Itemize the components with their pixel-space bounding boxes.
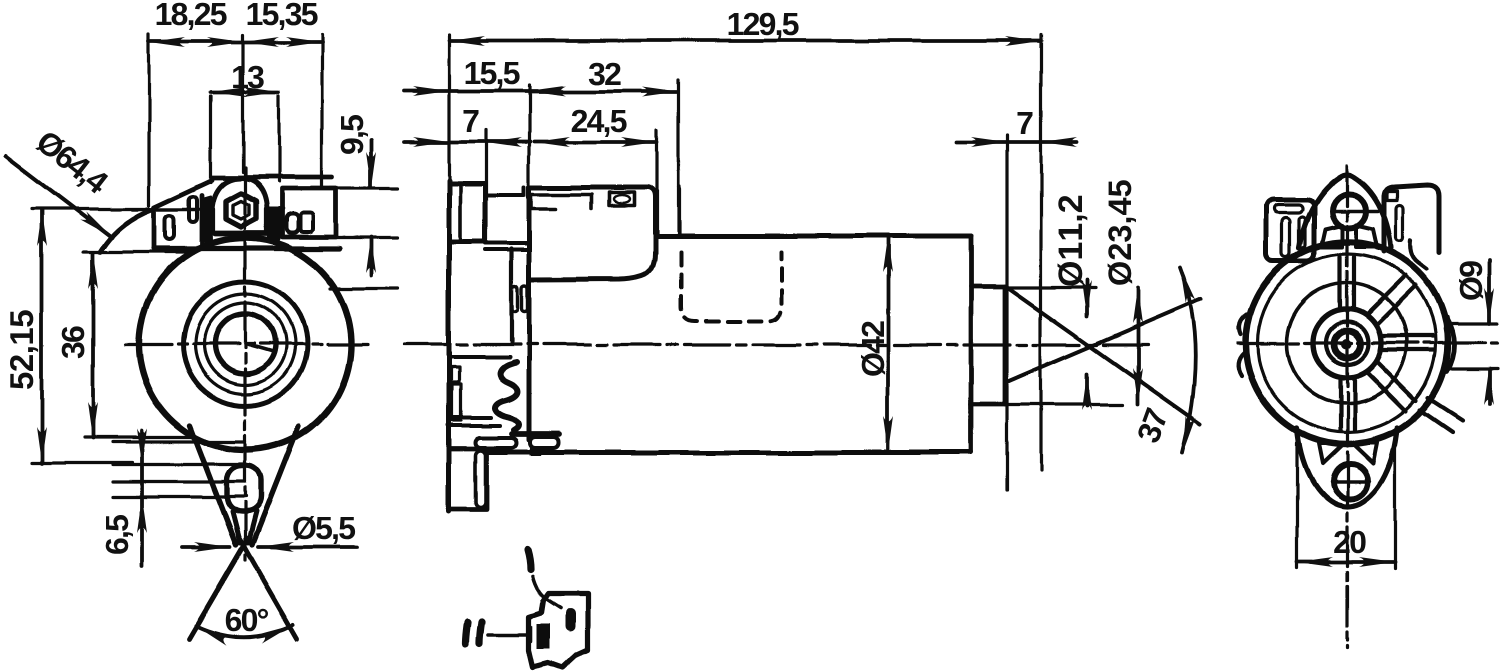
foot capsule [475,451,485,507]
small rect 2 [452,384,461,421]
left wing [1266,200,1314,261]
arrows 36 [88,253,98,289]
arrows dia9 [1484,288,1494,324]
label dia9 [1459,261,1483,299]
arrows 18,25 [149,37,185,47]
dim 36 vertical [91,253,95,438]
side line y418 [449,416,491,420]
label dia5,5 [293,516,355,544]
label 20 [1334,531,1365,554]
ext 52,15 top [32,207,150,210]
left tab outline [154,180,212,248]
right tab slot 2 [300,213,313,232]
flange seat double line [485,244,529,251]
left wing slot 2 [1299,217,1305,248]
dim dia23,45 vertical [1136,287,1140,404]
dia64,4 leader [6,156,112,237]
rear inner ring [1258,254,1436,432]
bottom clip capsule 1 [475,438,517,448]
shaft boss bottom [971,402,1005,407]
hex nut [226,193,256,227]
arrows 129,5 [449,36,485,46]
right wing slot [1396,205,1403,241]
connector small rect [609,192,634,205]
bottom ear hole [1333,464,1368,499]
arrows dia11,2 [1082,280,1092,316]
dim dia11,2 vertical [1085,280,1089,406]
top ear outline [1299,175,1391,249]
arrows 9,5 [366,152,376,188]
rear mid ring [1287,283,1407,403]
top ear triangles [1321,225,1377,247]
block step down [655,234,971,239]
ext 9,5 top [330,187,398,190]
side box y426 [448,424,500,428]
bottom gusset left edge [190,426,236,545]
arrows 6,5 [137,429,147,465]
bottom gusset right edge [252,426,299,545]
dim 5,5 line left [183,545,230,549]
nut dome sides [213,209,266,231]
right tab slot 1 [286,214,298,233]
neck leader lines [112,442,246,497]
left wing slot 1 [1282,218,1290,257]
left tab slot 2 [189,196,197,222]
label 60deg [226,609,268,632]
arrows 20 [1297,557,1333,567]
dim 18,25/15,35 line [149,40,322,44]
arrows dia23,45 [1133,287,1143,323]
gusset neck left [232,512,240,543]
dim 7 right line [956,140,1077,144]
front view outer housing circle [139,238,351,450]
arrows 13 [211,87,247,97]
shaft boss top [971,285,1005,290]
front view bearing circle r30 [215,314,275,374]
detail spring black [565,608,575,632]
dim 6,5 vertical [140,431,144,566]
rear hub bore [1334,331,1360,357]
spoke down [1340,377,1354,430]
arrow dia64,4 [80,211,115,241]
arrows 32 [530,87,566,97]
dia9 dim vertical [1487,260,1491,404]
label dia23,45 [1108,180,1136,284]
arrows 37 [1175,266,1195,303]
label dia11,2 [1058,196,1088,286]
arrows dia42 [883,236,893,272]
label 18,25 [157,3,227,30]
spoke right [1381,336,1435,350]
ext 52,15 bottom [32,461,132,464]
front view vertical centerline [243,168,246,560]
ext x657 [655,130,658,236]
bracket top plate line [212,175,332,180]
detail II ticks [466,621,482,644]
dim 9,5 vertical [369,140,373,275]
bottom clip capsule 2 [530,437,558,448]
label 32 [589,63,621,86]
foot box [449,449,486,509]
ext 9,5 bottom [330,236,398,239]
rear lower-right stub [1420,398,1462,432]
arrows 15,5 [413,86,449,96]
detail outline [529,593,587,668]
dim 7 left line [404,140,530,144]
top box inner line [458,183,462,242]
cone line right [239,538,297,639]
ext x1041 [1039,35,1042,470]
spoke up [1340,257,1354,310]
connector block [529,187,655,280]
dim 15,5 line [404,89,562,93]
right wing [1384,185,1440,252]
dim 13 line [211,90,279,94]
bottom ear hole cross [1331,479,1369,482]
dim 52,15 vertical [40,210,44,463]
connector inner rect [531,194,592,209]
ext x486 [484,130,487,240]
hidden gear dashed [681,252,781,321]
shaft boss end [1003,287,1008,404]
right wing leg [1411,240,1427,269]
flange foot dark patch [530,448,543,456]
label dia64,4 [32,129,111,199]
cone line 2 [1007,299,1201,382]
left tab slot 1 [165,215,174,239]
nut boss bottom [215,231,267,237]
dim 20 ext right [1393,443,1396,568]
dia9 ext top [1452,322,1497,325]
gear boss edge x679 [677,187,681,236]
detail II leader [489,627,531,641]
ext 36 top [84,250,195,253]
label 9,5 [341,115,368,154]
flange face vertical [527,187,532,440]
front view key mark [245,344,273,352]
ext x528 [527,85,530,187]
arrows 7 right [971,137,1007,147]
nut dome [212,178,267,209]
rear right bump [1447,318,1455,372]
arrows 60deg [194,621,231,645]
label 6,5 [106,515,133,554]
ext line x211 [209,96,212,182]
hex inner hole [233,201,249,219]
side box y356 [449,355,509,359]
dim 20 ext left [1295,443,1298,568]
channel waist blobs [512,286,518,312]
front view horizontal centerline [126,342,368,345]
37 deg arc [1180,267,1196,452]
gusset neck right [248,512,256,543]
ext x678 [677,80,680,187]
arrows 52,15 [37,210,47,246]
dim 129,5 line [449,39,1041,43]
left wing slot top [1274,205,1302,213]
ext line x243 [241,35,244,172]
arrows 7 left [413,137,449,147]
arrows 5,5 [194,542,230,552]
dim 32 line [530,90,678,94]
motor can bottom [488,450,971,455]
detail I leader [532,576,560,608]
ext 36 bottom [84,436,195,439]
front view inner ring r62 [183,282,307,406]
dia9 ext bottom [1452,367,1497,370]
front view ring r41 [204,303,286,385]
gusset hole oval [227,466,261,512]
arrows 15,35 [243,37,279,47]
right wing slot top [1387,191,1397,200]
bracket mounting line right [266,207,283,211]
dim 20 line [1297,560,1395,564]
top bracket base line [154,246,340,251]
top ear hole cross [1331,209,1378,212]
rear hub center dot [1341,339,1351,349]
side view centerline [404,343,1148,346]
motor can right [969,236,974,452]
ext line y288 [330,286,398,289]
label 15,5 [466,62,520,89]
bracket dark wedge left [204,196,212,242]
arrows 24,5 [534,137,570,147]
label 7 right [1018,112,1033,134]
spring clip squiggle [495,362,519,430]
ext x449 top [447,35,450,180]
bottom ear triangles [1319,443,1377,463]
gearbox top box [449,183,485,242]
bracket mounting line left [132,207,212,211]
label 129,5 [729,13,799,40]
label 13 [233,66,264,89]
rear left bumps [1239,314,1247,376]
spoke upper-right diagonal [1367,276,1416,325]
rear view horizontal centerline [1238,341,1497,344]
top ear hole [1332,194,1366,228]
dim 5,5 line right [258,545,357,549]
ext x1007 [1005,135,1008,490]
step ledge [485,187,524,195]
dia64,4 arc [100,209,153,252]
label 7 left [464,110,479,132]
connector oval [614,195,630,203]
label 24,5 [572,110,627,137]
cone line left [189,538,248,639]
spoke lower-right diagonal [1367,362,1416,411]
boss top ext [1005,286,1095,289]
bottom ear outline [1297,428,1397,506]
rear hub outer [1313,309,1381,377]
dim dia42 vertical [886,236,890,452]
label 37 [1136,407,1168,445]
ext line x322 [320,35,323,188]
cone line 1 [1007,287,1201,424]
dim 24,5 line [534,140,657,144]
boss bottom ext [1005,403,1122,406]
bracket dark wedge right [268,208,279,240]
small rect 1 [451,367,459,382]
detail I tick [527,549,530,569]
label dia42 [861,321,885,375]
ext line x149 [147,35,150,205]
right tab outline [282,189,336,237]
rear hub mid [1326,322,1368,364]
label 52,15 [10,310,38,389]
gearbox left edge [447,180,452,511]
front view ring r50 [195,294,295,394]
label 15,35 [248,3,318,30]
bottom clip dark band [512,431,558,437]
label 36 [62,326,85,358]
60 degree arc [196,625,293,637]
rear outer circle [1246,242,1448,444]
detail brush black [537,624,550,649]
rear view vertical centerline [1345,166,1348,648]
inner vertical x511 [509,249,513,342]
ext line x279 [277,96,280,182]
